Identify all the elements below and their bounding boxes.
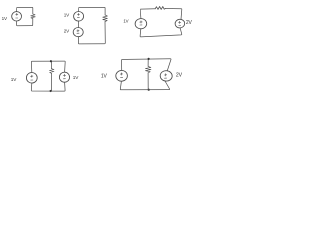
svg-text:1V: 1V xyxy=(11,77,17,82)
wire (circuit 1 top) xyxy=(17,7,33,13)
junction (circuit 4 top) xyxy=(50,60,52,62)
resistor R5 xyxy=(145,66,151,73)
svg-text:1V: 1V xyxy=(2,16,8,21)
svg-text:2V: 2V xyxy=(176,72,183,78)
wire (circuit 4 top rail) xyxy=(31,61,65,72)
voltage source V6 xyxy=(26,72,37,83)
wire (circuit 3 bottom) xyxy=(140,28,182,37)
junction (circuit 4 bottom) xyxy=(50,90,52,92)
junction (circuit 5 top) xyxy=(148,58,150,60)
voltage source V5 xyxy=(175,19,185,29)
wire (circuit 2 bottom) xyxy=(78,22,105,44)
voltage source V8 xyxy=(115,70,127,82)
wire (circuit 5 middle bottom) xyxy=(147,73,149,90)
wire (circuit 5 top rail) xyxy=(122,59,172,71)
resistor R2 xyxy=(103,15,108,22)
wire (circuit 5 bottom rail) xyxy=(120,81,169,90)
wire (circuit 2 top) xyxy=(79,7,106,14)
voltage source V4 xyxy=(135,18,147,29)
voltage source V2 xyxy=(73,11,83,21)
svg-text:1V: 1V xyxy=(123,18,128,23)
wire (circuit 4 bottom rail) xyxy=(31,82,65,91)
resistor R4 xyxy=(49,69,54,74)
voltage source V9 xyxy=(160,70,173,81)
svg-text:1V: 1V xyxy=(64,13,70,18)
wire (circuit 5 middle top) xyxy=(147,59,149,66)
wire (circuit 3 top right) xyxy=(165,9,182,20)
wire (circuit 2 between sources) xyxy=(77,21,79,27)
junction (circuit 5 bottom) xyxy=(148,89,150,91)
voltage source V3 xyxy=(73,27,83,37)
wire (circuit 4 middle bottom) xyxy=(51,73,53,91)
resistor R3 xyxy=(155,7,165,10)
svg-text:2V: 2V xyxy=(64,28,70,33)
wire (circuit 1 bottom) xyxy=(17,19,33,26)
wire (circuit 3 top left) xyxy=(140,9,155,19)
resistor R1 xyxy=(31,14,36,19)
svg-text:1V: 1V xyxy=(101,73,108,79)
voltage source V7 xyxy=(59,72,70,83)
wire (circuit 4 middle top) xyxy=(51,61,53,68)
svg-text:2V: 2V xyxy=(186,20,193,26)
voltage source V1 xyxy=(11,11,21,21)
svg-text:1V: 1V xyxy=(73,75,79,80)
